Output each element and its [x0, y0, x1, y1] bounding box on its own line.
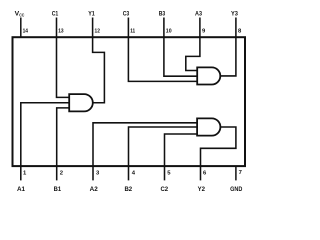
svg-text:Y2: Y2: [198, 186, 206, 193]
svg-text:GND: GND: [230, 186, 242, 193]
svg-text:14: 14: [23, 28, 29, 34]
svg-text:11: 11: [130, 28, 136, 34]
svg-text:Y3: Y3: [231, 10, 238, 17]
svg-text:10: 10: [166, 28, 172, 34]
svg-text:B2: B2: [124, 186, 132, 193]
svg-text:C3: C3: [123, 10, 130, 17]
svg-text:1: 1: [23, 170, 27, 176]
svg-text:5: 5: [167, 170, 171, 176]
svg-text:12: 12: [95, 28, 101, 34]
svg-text:2: 2: [60, 170, 64, 176]
svg-text:13: 13: [58, 28, 64, 34]
svg-text:6: 6: [203, 170, 207, 176]
svg-text:A3: A3: [195, 10, 202, 17]
svg-text:Y1: Y1: [88, 10, 95, 17]
svg-text:3: 3: [96, 170, 100, 176]
svg-text:A2: A2: [90, 186, 98, 193]
svg-text:C1: C1: [52, 10, 59, 17]
svg-text:C2: C2: [160, 186, 168, 193]
svg-text:B1: B1: [54, 186, 62, 193]
svg-text:CC: CC: [19, 12, 25, 17]
svg-text:9: 9: [202, 28, 206, 34]
svg-text:A1: A1: [17, 186, 25, 193]
svg-text:4: 4: [132, 170, 136, 176]
svg-text:7: 7: [239, 170, 243, 176]
svg-text:8: 8: [238, 28, 242, 34]
svg-text:B3: B3: [159, 10, 166, 17]
